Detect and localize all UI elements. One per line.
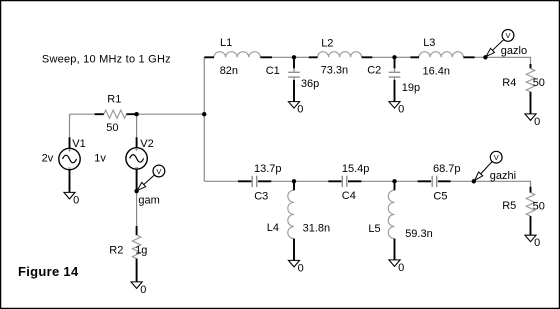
svg-text:0: 0 — [534, 237, 540, 249]
svg-text:0: 0 — [140, 284, 146, 296]
svg-text:Figure 14: Figure 14 — [18, 264, 79, 279]
svg-text:V: V — [494, 153, 499, 162]
svg-text:C1: C1 — [266, 65, 280, 77]
svg-text:68.7p: 68.7p — [433, 163, 461, 175]
svg-text:L4: L4 — [267, 222, 279, 234]
svg-text:R1: R1 — [107, 93, 121, 105]
svg-text:0: 0 — [398, 104, 404, 116]
svg-text:V: V — [156, 167, 161, 176]
svg-text:gam: gam — [138, 195, 159, 207]
svg-text:gazhi: gazhi — [490, 170, 516, 182]
svg-text:C5: C5 — [433, 190, 447, 202]
svg-text:1v: 1v — [94, 153, 106, 165]
svg-text:0: 0 — [73, 194, 79, 206]
svg-text:15.4p: 15.4p — [342, 163, 370, 175]
svg-text:C4: C4 — [342, 190, 356, 202]
svg-text:19p: 19p — [402, 82, 420, 94]
svg-text:gazlo: gazlo — [501, 45, 527, 57]
svg-text:2v: 2v — [42, 153, 54, 165]
svg-text:C2: C2 — [367, 65, 381, 77]
svg-text:R2: R2 — [109, 245, 123, 257]
svg-text:L5: L5 — [368, 223, 380, 235]
svg-text:C3: C3 — [254, 190, 268, 202]
svg-text:V1: V1 — [72, 138, 85, 150]
svg-text:Sweep, 10 MHz to 1 GHz: Sweep, 10 MHz to 1 GHz — [42, 54, 171, 66]
svg-text:31.8n: 31.8n — [303, 223, 331, 235]
svg-text:0: 0 — [297, 104, 303, 116]
svg-text:R4: R4 — [502, 77, 516, 89]
svg-text:82n: 82n — [220, 65, 238, 77]
svg-text:1g: 1g — [135, 245, 147, 257]
svg-text:36p: 36p — [301, 78, 319, 90]
svg-text:73.3n: 73.3n — [321, 65, 349, 77]
svg-text:0: 0 — [534, 116, 540, 128]
svg-text:0: 0 — [298, 262, 304, 274]
svg-text:50: 50 — [533, 200, 545, 212]
svg-text:L3: L3 — [423, 37, 435, 49]
svg-text:V2: V2 — [140, 138, 153, 150]
svg-text:16.4n: 16.4n — [423, 66, 451, 78]
svg-text:V: V — [505, 31, 510, 40]
svg-text:R5: R5 — [502, 200, 516, 212]
svg-text:50: 50 — [533, 77, 545, 89]
svg-text:13.7p: 13.7p — [254, 163, 282, 175]
svg-text:59.3n: 59.3n — [405, 228, 433, 240]
svg-text:50: 50 — [106, 122, 118, 134]
svg-text:L2: L2 — [321, 37, 333, 49]
svg-text:0: 0 — [398, 262, 404, 274]
svg-text:L1: L1 — [220, 37, 232, 49]
